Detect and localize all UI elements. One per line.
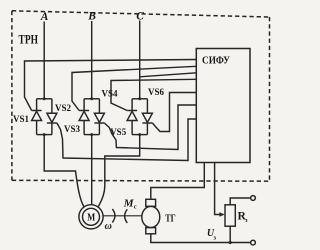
wire shaft motor to TG — [103, 215, 142, 217]
svg-text:з: з — [245, 217, 248, 224]
svg-text:ТРН: ТРН — [19, 32, 39, 47]
node junction phase B input — [90, 97, 93, 100]
dashed enclosure border of TRN block — [12, 11, 270, 181]
control unit SIFU (pulse-phase control) — [196, 49, 250, 163]
wire phase B — [91, 21, 93, 99]
node junction module C output — [138, 133, 141, 136]
thyristor pair module phase A — [32, 99, 57, 135]
svg-text:VS2: VS2 — [55, 103, 72, 113]
wire top bar — [132, 98, 147, 100]
wire bottom bar — [132, 134, 147, 136]
thyristor pair module phase C — [127, 99, 152, 135]
svg-text:с: с — [134, 203, 137, 210]
thyristor VS5 — [127, 99, 137, 135]
wire gate VS3 to SIFU — [72, 66, 196, 110]
svg-text:з: з — [213, 234, 216, 241]
motor M outer circle — [79, 205, 103, 229]
svg-text:СИФУ: СИФУ — [202, 55, 230, 66]
wiper arrow into Rz — [219, 212, 225, 216]
node junction module B output — [90, 133, 93, 136]
svg-text:ТГ: ТГ — [165, 214, 176, 225]
node junction phase A input — [43, 97, 46, 100]
thyristor VS6 — [142, 99, 152, 135]
arc load torque Mc — [125, 209, 128, 223]
wire phase A — [43, 22, 45, 99]
wire gate VS1 to SIFU — [25, 60, 197, 111]
wire bottom bar — [84, 134, 99, 136]
svg-text:VS3: VS3 — [64, 124, 81, 134]
wire module C output to motor — [98, 135, 139, 207]
wire gate VS6 to SIFU — [152, 93, 196, 132]
wire module B output to motor — [91, 135, 93, 205]
thyristor VS3 — [79, 99, 89, 135]
tachogenerator TG brush bottom — [146, 228, 156, 234]
thyristor pair module phase B — [79, 99, 104, 135]
wire gate VS4 to SIFU — [104, 105, 196, 150]
wire SIFU to potentiometer wiper — [215, 163, 222, 215]
svg-text:ω: ω — [105, 221, 112, 232]
svg-text:B: B — [87, 11, 96, 23]
thyristor VS4 — [94, 99, 104, 135]
wire top bar — [37, 98, 52, 100]
wire bottom bar — [37, 134, 52, 136]
wire TG bottom to rail — [151, 234, 251, 243]
svg-text:A: A — [40, 11, 49, 23]
node junction Rz bottom to rail — [229, 241, 232, 244]
svg-text:М: М — [87, 212, 95, 224]
wire Rz top to terminal — [230, 198, 250, 205]
tachogenerator TG body — [142, 206, 160, 227]
tachogenerator TG brush top — [146, 199, 156, 206]
svg-text:VS4: VS4 — [102, 88, 119, 98]
terminal bottom (supply Uz) — [251, 240, 256, 245]
wire sync phase C to SIFU — [140, 73, 197, 77]
potentiometer Rz body — [225, 205, 235, 226]
wire Rz bottom — [229, 226, 231, 242]
motor M inner circle — [83, 208, 100, 225]
wire gate VS5 to SIFU — [111, 79, 196, 110]
thyristor VS2 — [47, 99, 57, 135]
node junction phase C input — [138, 97, 141, 100]
svg-text:VS6: VS6 — [148, 87, 165, 97]
wire phase C — [139, 21, 141, 99]
arc rotation omega — [112, 209, 115, 223]
thyristor VS1 — [32, 99, 42, 135]
terminal top (supply Uz) — [251, 196, 256, 201]
wire SIFU to tachogenerator feedback — [151, 163, 205, 200]
wire gate VS2 to SIFU — [57, 119, 196, 161]
wire module A output to motor — [44, 135, 84, 207]
node junction module A output — [43, 133, 46, 136]
wire top bar — [84, 98, 99, 100]
svg-text:VS1: VS1 — [13, 114, 30, 124]
